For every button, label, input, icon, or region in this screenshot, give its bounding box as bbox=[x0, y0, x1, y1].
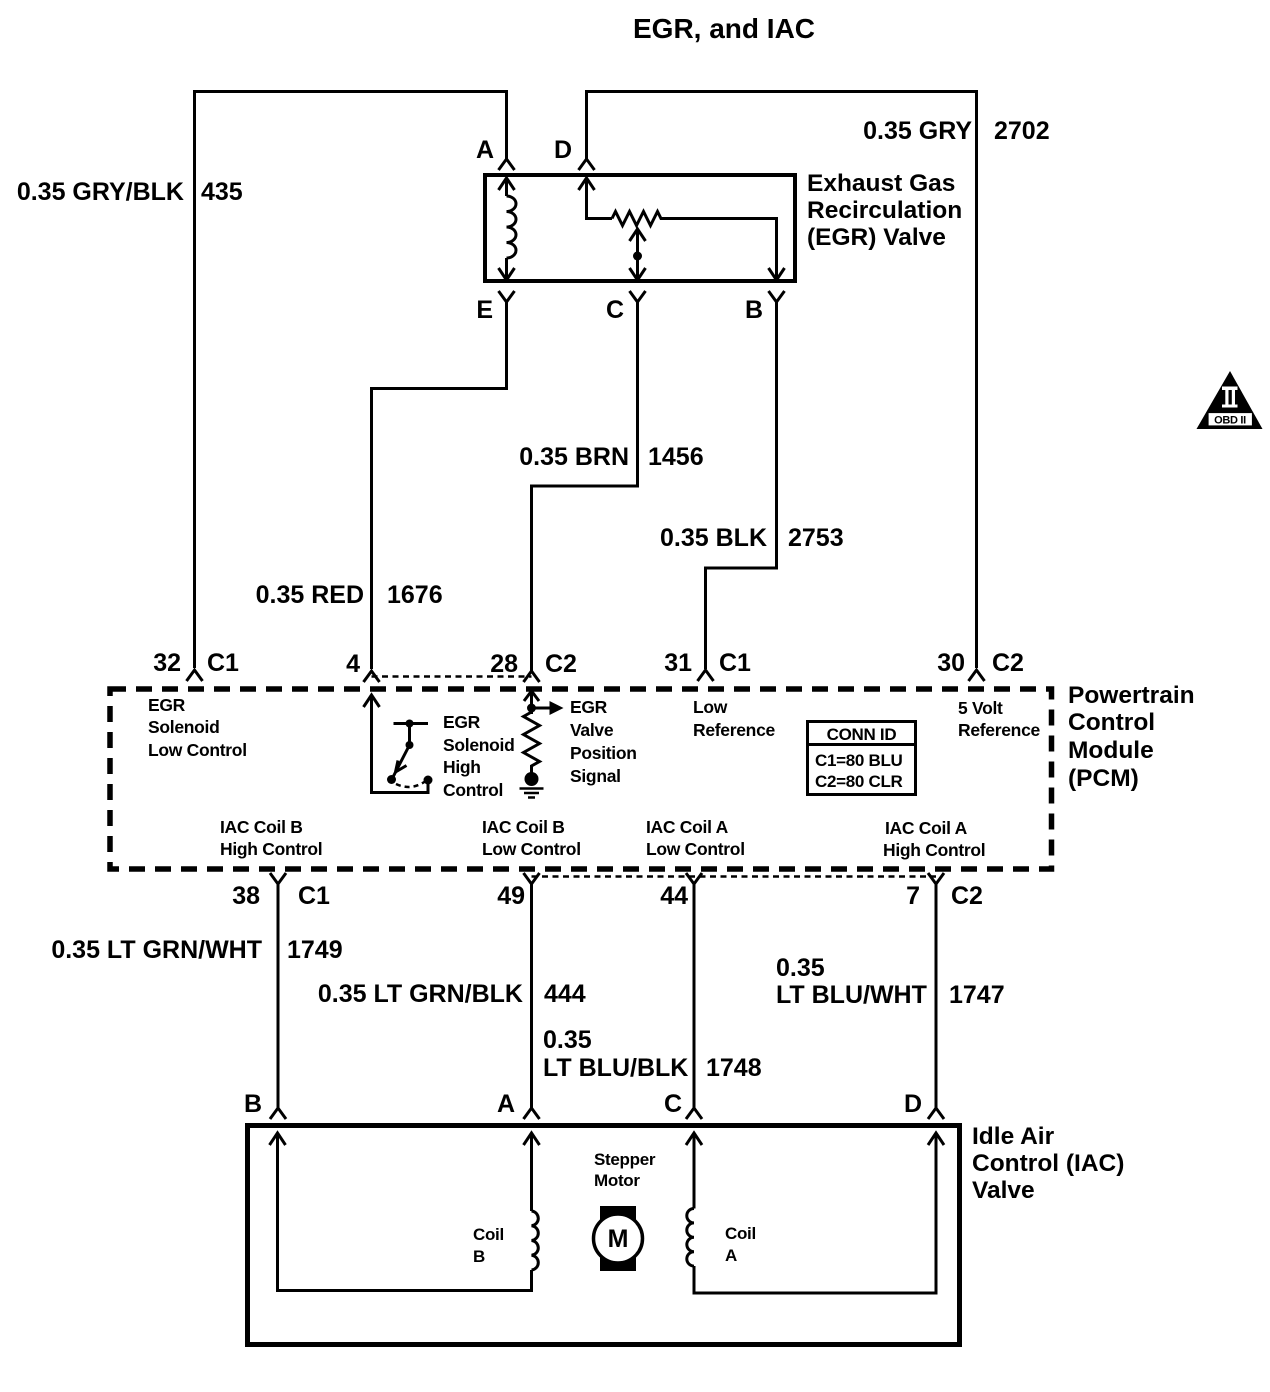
svg-text:M: M bbox=[608, 1225, 629, 1253]
svg-text:0.35: 0.35 bbox=[776, 954, 825, 982]
svg-text:1676: 1676 bbox=[387, 581, 443, 609]
svg-text:C1: C1 bbox=[719, 649, 751, 677]
svg-text:C1=80 BLU: C1=80 BLU bbox=[815, 751, 903, 770]
svg-text:49: 49 bbox=[497, 882, 525, 910]
svg-text:Control: Control bbox=[1068, 709, 1155, 736]
svg-text:IAC Coil A: IAC Coil A bbox=[646, 817, 729, 837]
svg-text:Control (IAC): Control (IAC) bbox=[972, 1150, 1124, 1177]
svg-text:B: B bbox=[244, 1090, 262, 1118]
svg-text:EGR, and IAC: EGR, and IAC bbox=[633, 13, 815, 44]
svg-text:0.35 RED: 0.35 RED bbox=[256, 581, 364, 609]
svg-text:5 Volt: 5 Volt bbox=[958, 698, 1003, 718]
svg-text:Signal: Signal bbox=[570, 766, 621, 786]
svg-text:Powertrain: Powertrain bbox=[1068, 682, 1195, 709]
svg-text:B: B bbox=[473, 1247, 485, 1266]
svg-text:High: High bbox=[443, 757, 481, 777]
svg-text:Solenoid: Solenoid bbox=[443, 735, 515, 755]
svg-text:B: B bbox=[745, 296, 763, 324]
svg-text:2753: 2753 bbox=[788, 524, 844, 552]
svg-text:Motor: Motor bbox=[594, 1171, 640, 1190]
svg-text:Low: Low bbox=[693, 697, 728, 717]
svg-text:28: 28 bbox=[490, 650, 518, 678]
svg-text:E: E bbox=[476, 296, 493, 324]
svg-text:4: 4 bbox=[346, 650, 360, 678]
svg-text:IAC Coil B: IAC Coil B bbox=[482, 817, 565, 837]
svg-text:High Control: High Control bbox=[220, 839, 322, 859]
svg-text:Module: Module bbox=[1068, 737, 1154, 764]
svg-text:LT BLU/BLK: LT BLU/BLK bbox=[543, 1054, 688, 1082]
svg-text:Valve: Valve bbox=[570, 720, 614, 740]
svg-text:D: D bbox=[554, 136, 572, 164]
svg-text:30: 30 bbox=[937, 649, 965, 677]
svg-text:C2: C2 bbox=[951, 882, 983, 910]
svg-text:OBD II: OBD II bbox=[1214, 415, 1246, 427]
svg-text:EGR: EGR bbox=[570, 697, 608, 717]
svg-text:0.35 BLK: 0.35 BLK bbox=[660, 524, 767, 552]
svg-text:Stepper: Stepper bbox=[594, 1150, 656, 1169]
svg-text:0.35 GRY/BLK: 0.35 GRY/BLK bbox=[17, 178, 184, 206]
svg-text:1456: 1456 bbox=[648, 443, 704, 471]
svg-text:C1: C1 bbox=[298, 882, 330, 910]
svg-text:Control: Control bbox=[443, 780, 503, 800]
svg-text:0.35: 0.35 bbox=[543, 1026, 592, 1054]
svg-text:Position: Position bbox=[570, 743, 637, 763]
svg-text:C2: C2 bbox=[992, 649, 1024, 677]
svg-text:0.35 BRN: 0.35 BRN bbox=[519, 443, 629, 471]
svg-text:Low Control: Low Control bbox=[148, 740, 247, 760]
svg-text:Coil: Coil bbox=[473, 1225, 504, 1244]
svg-text:Idle Air: Idle Air bbox=[972, 1123, 1055, 1150]
svg-text:C1: C1 bbox=[207, 649, 239, 677]
svg-text:31: 31 bbox=[664, 649, 692, 677]
svg-text:Recirculation: Recirculation bbox=[807, 197, 962, 224]
svg-text:A: A bbox=[476, 136, 494, 164]
svg-text:IAC Coil B: IAC Coil B bbox=[220, 817, 303, 837]
svg-text:444: 444 bbox=[544, 980, 586, 1008]
svg-text:0.35 LT GRN/BLK: 0.35 LT GRN/BLK bbox=[318, 980, 523, 1008]
svg-text:Coil: Coil bbox=[725, 1224, 756, 1243]
svg-text:C2=80 CLR: C2=80 CLR bbox=[815, 772, 903, 791]
svg-text:7: 7 bbox=[906, 882, 920, 910]
svg-text:0.35 GRY: 0.35 GRY bbox=[863, 117, 972, 145]
svg-text:38: 38 bbox=[232, 882, 260, 910]
svg-text:Reference: Reference bbox=[693, 720, 775, 740]
svg-text:1749: 1749 bbox=[287, 936, 343, 964]
svg-text:C: C bbox=[664, 1090, 682, 1118]
svg-text:High Control: High Control bbox=[883, 840, 985, 860]
svg-text:LT BLU/WHT: LT BLU/WHT bbox=[776, 981, 927, 1009]
svg-text:C: C bbox=[606, 296, 624, 324]
svg-text:A: A bbox=[725, 1246, 737, 1265]
svg-text:44: 44 bbox=[660, 882, 688, 910]
svg-text:EGR: EGR bbox=[443, 712, 481, 732]
svg-text:Solenoid: Solenoid bbox=[148, 717, 220, 737]
svg-text:D: D bbox=[904, 1090, 922, 1118]
svg-text:435: 435 bbox=[201, 178, 243, 206]
svg-text:CONN ID: CONN ID bbox=[827, 725, 897, 744]
svg-text:EGR: EGR bbox=[148, 695, 186, 715]
svg-text:(PCM): (PCM) bbox=[1068, 765, 1139, 792]
svg-text:0.35 LT GRN/WHT: 0.35 LT GRN/WHT bbox=[51, 936, 262, 964]
svg-text:1748: 1748 bbox=[706, 1054, 762, 1082]
svg-text:(EGR) Valve: (EGR) Valve bbox=[807, 224, 946, 251]
svg-text:2702: 2702 bbox=[994, 117, 1050, 145]
svg-text:32: 32 bbox=[153, 649, 181, 677]
svg-text:A: A bbox=[497, 1090, 515, 1118]
svg-text:C2: C2 bbox=[545, 650, 577, 678]
svg-text:Reference: Reference bbox=[958, 720, 1040, 740]
svg-text:IAC Coil A: IAC Coil A bbox=[885, 818, 968, 838]
svg-text:Low Control: Low Control bbox=[646, 839, 745, 859]
svg-text:Valve: Valve bbox=[972, 1177, 1035, 1204]
svg-text:Low Control: Low Control bbox=[482, 839, 581, 859]
svg-text:1747: 1747 bbox=[949, 981, 1005, 1009]
svg-text:Exhaust Gas: Exhaust Gas bbox=[807, 170, 955, 197]
